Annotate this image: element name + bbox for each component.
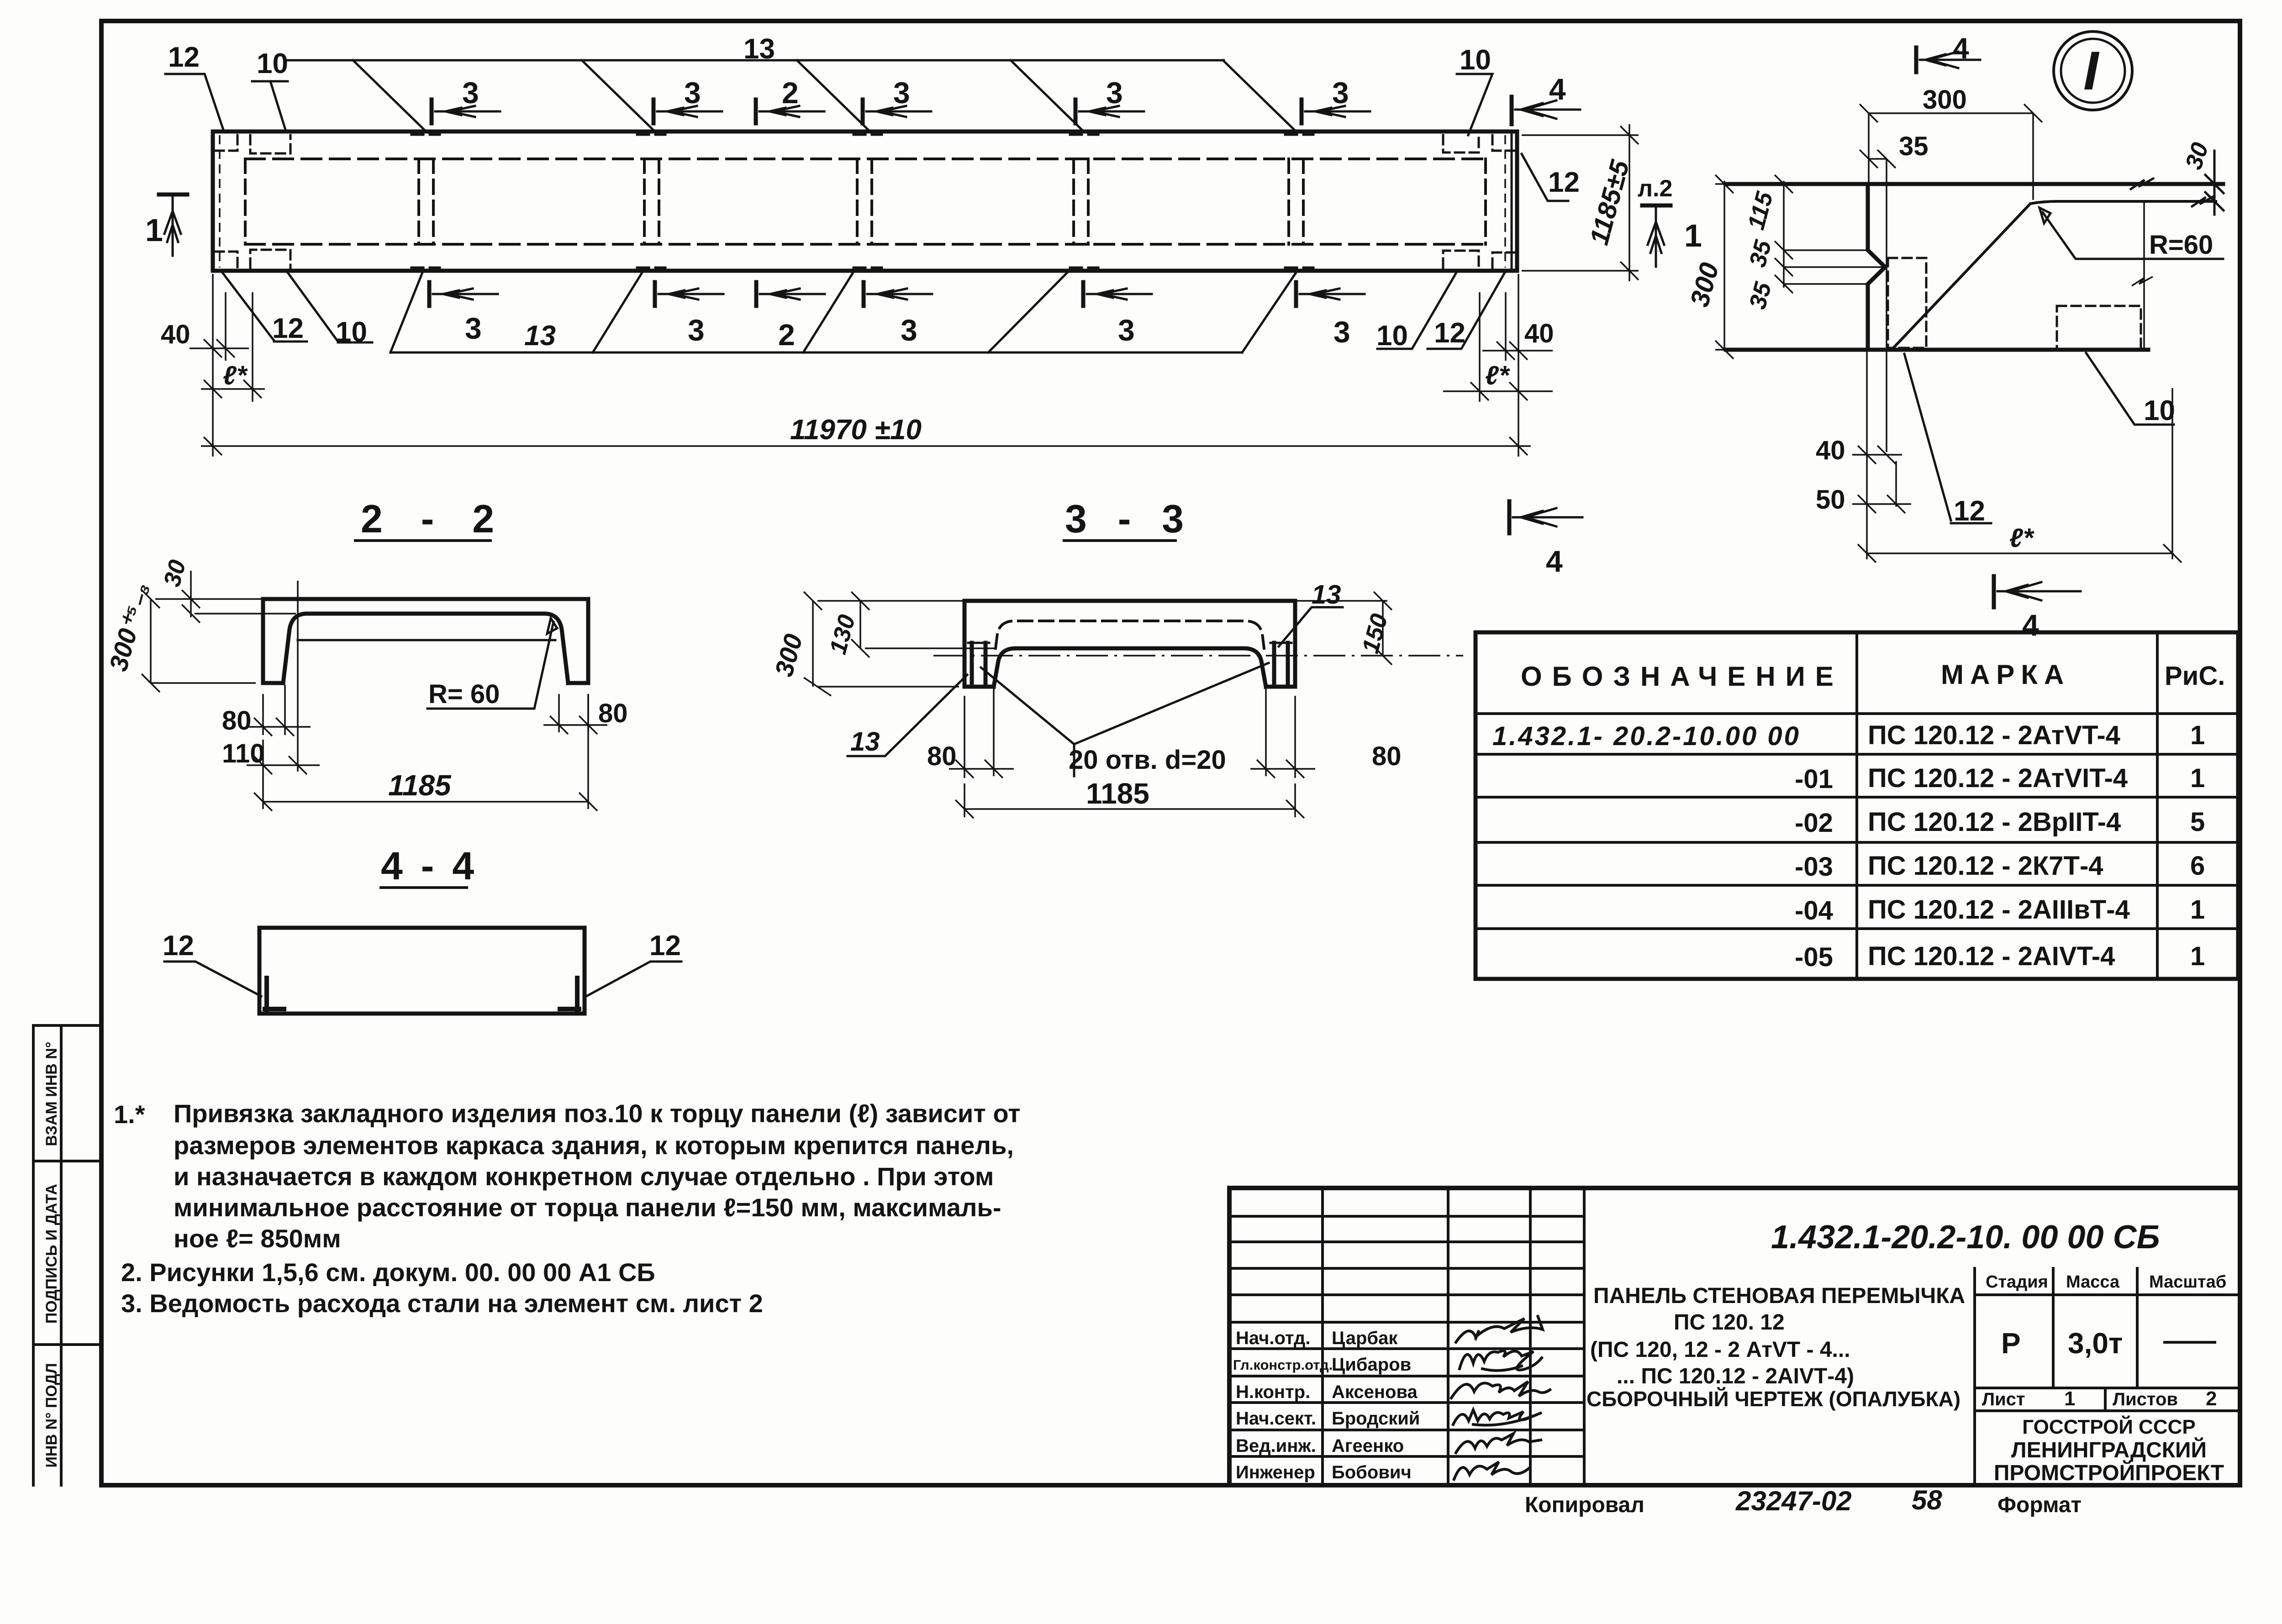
svg-text:Стадия: Стадия: [1986, 1272, 2048, 1292]
svg-text:I: I: [2083, 40, 2100, 101]
svg-text:110: 110: [222, 739, 265, 768]
detail panel bottom edge: [1726, 348, 2148, 352]
svg-text:23247-02: 23247-02: [1735, 1486, 1852, 1516]
web surface line: [298, 639, 555, 641]
svg-text:58: 58: [1912, 1485, 1942, 1515]
channel profile inner: [283, 614, 568, 683]
svg-text:1: 1: [1684, 218, 1702, 253]
section marker 3 top b: [654, 100, 722, 123]
leader label 10 bottom-right: [1377, 273, 1456, 349]
svg-text:2: 2: [2206, 1387, 2217, 1410]
detail end face with keyway: [1868, 184, 1885, 350]
svg-text:3: 3: [1332, 76, 1349, 110]
svg-text:Аксенова: Аксенова: [1332, 1382, 1418, 1402]
dim 300+5-3 left: [142, 590, 263, 692]
embed plate 12 top-left (hidden): [215, 135, 237, 151]
svg-text:2 - 2: 2 - 2: [361, 497, 508, 541]
beam outline: [259, 928, 585, 1014]
embed plate 10 top-right (hidden): [1443, 135, 1479, 152]
dim 300 top of detail: [1860, 104, 2042, 200]
dimension 11970±10: [201, 437, 1531, 455]
dim 1185: [254, 694, 597, 811]
svg-text:3: 3: [1333, 315, 1350, 349]
svg-text:1.*: 1.*: [114, 1100, 145, 1129]
embed plate 10 bottom-right (hidden): [1443, 251, 1479, 268]
svg-text:Р: Р: [2001, 1327, 2021, 1360]
dim 35 top of detail: [1860, 150, 1896, 452]
leader diagonals 13 top: [353, 60, 1296, 131]
embed stubs at dividers bottom edge: [411, 267, 1313, 269]
svg-text:10: 10: [1376, 320, 1408, 352]
section marker 3 bottom b: [655, 282, 723, 306]
svg-text:Цибаров: Цибаров: [1332, 1355, 1411, 1375]
svg-text:Нач.отд.: Нач.отд.: [1236, 1328, 1310, 1348]
svg-text:... ПС 120.12 - 2АIVТ-4): ... ПС 120.12 - 2АIVТ-4): [1617, 1364, 1854, 1388]
dim 80 left s33: [949, 688, 1014, 778]
svg-text:Гл.констр.отд.: Гл.констр.отд.: [1233, 1357, 1333, 1373]
section marker 3 top e: [1302, 100, 1370, 123]
left grid verticals: [1323, 1188, 1584, 1485]
section marker 3 bottom e: [1296, 282, 1365, 306]
dim 300 left: [804, 592, 964, 696]
marks table: [1476, 632, 2238, 979]
signature Brodskiy: [1453, 1410, 1542, 1425]
leader label 12 bottom-left: [222, 273, 307, 342]
svg-text:35: 35: [1899, 131, 1929, 161]
svg-text:ВЗАМ ИНВ N°: ВЗАМ ИНВ N°: [43, 1042, 60, 1146]
svg-text:4: 4: [2022, 608, 2039, 642]
svg-text:Вед.инж.: Вед.инж.: [1236, 1436, 1316, 1456]
title block outer: [1229, 1188, 2240, 1485]
flash break marks on lines right: [2131, 151, 2224, 215]
channel profile inner solid: [994, 648, 1266, 687]
dim 1185 s33: [955, 783, 1304, 818]
svg-text:ОБОЗНАЧЕНИЕ: ОБОЗНАЧЕНИЕ: [1521, 661, 1844, 692]
svg-text:1: 1: [2190, 763, 2205, 793]
signature Ageenko: [1456, 1434, 1541, 1453]
dim 80 right s33: [1250, 688, 1315, 778]
section marker 1 right: [1642, 204, 1671, 208]
hole in right leg: [1274, 643, 1288, 684]
svg-text:СБОРОЧНЫЙ ЧЕРТЕЖ (ОПАЛУБКА): СБОРОЧНЫЙ ЧЕРТЕЖ (ОПАЛУБКА): [1586, 1387, 1961, 1411]
svg-text:3: 3: [688, 313, 705, 347]
svg-text:ПС 120.12 - 2АтVIT-4: ПС 120.12 - 2АтVIT-4: [1868, 763, 2128, 793]
hidden end face line right (dashed): [1504, 135, 1506, 268]
section marker 4 detail bottom: [1994, 576, 2081, 607]
svg-text:10: 10: [257, 48, 288, 79]
embed stubs at dividers top edge: [411, 134, 1313, 136]
svg-text:3. Ведомость расхода стали: 3. Ведомость расхода стали на элемент см…: [121, 1289, 763, 1318]
embed plate 10 bottom-left (hidden): [250, 250, 290, 268]
detail panel top edge: [1726, 182, 2223, 186]
title block: [1229, 1188, 2240, 1485]
ext line through profile: [297, 581, 299, 772]
embed plate 12 left end view: [265, 978, 284, 1011]
svg-text:-03: -03: [1795, 852, 1833, 882]
svg-text:1: 1: [2190, 720, 2205, 750]
dim 80 right: [543, 694, 607, 734]
dim 50 below detail: [1852, 495, 1911, 513]
embed plate 12 in detail (hidden): [1888, 258, 1926, 348]
svg-text:ПОДПИСЬ И ДАТА: ПОДПИСЬ И ДАТА: [43, 1184, 60, 1324]
svg-text:МАРКА: МАРКА: [1941, 659, 2070, 690]
svg-text:13: 13: [524, 320, 556, 352]
svg-text:ℓ*: ℓ*: [1485, 361, 1510, 390]
svg-text:ℓ*: ℓ*: [2009, 523, 2034, 553]
svg-text:R=60: R=60: [2149, 230, 2213, 260]
svg-text:ПС 120.12 - 2АIVT-4: ПС 120.12 - 2АIVT-4: [1868, 941, 2115, 971]
svg-text:5: 5: [2190, 807, 2205, 837]
svg-text:13: 13: [1312, 580, 1341, 610]
svg-text:1: 1: [145, 212, 163, 248]
svg-text:1: 1: [2190, 941, 2205, 971]
svg-text:10: 10: [336, 316, 367, 348]
section marker 4 top-right: [1512, 97, 1580, 124]
section marker 3 top a: [432, 100, 500, 123]
svg-text:40: 40: [161, 320, 190, 349]
leader diagonals 13 bottom: [390, 272, 1296, 352]
svg-text:4: 4: [1953, 32, 1969, 65]
svg-text:ПРОМСТРОЙПРОЕКТ: ПРОМСТРОЙПРОЕКТ: [1994, 1460, 2224, 1485]
svg-text:12: 12: [272, 313, 304, 344]
leader label 12 bottom-right: [1428, 273, 1505, 349]
main panel plan: [145, 33, 1702, 578]
section 4-4: [163, 844, 681, 1014]
svg-text:Привязка закладного изделия: Привязка закладного изделия поз.10 к тор…: [174, 1099, 1021, 1128]
svg-text:80: 80: [1372, 741, 1402, 771]
dimension 1185±5 right: [1522, 124, 1639, 281]
bottom caption row: [1525, 1485, 2082, 1517]
svg-text:12: 12: [1954, 495, 1985, 527]
center axis line: [933, 655, 1463, 657]
svg-text:и назначается в каждом конкр: и назначается в каждом конкретном случае…: [174, 1162, 994, 1191]
hidden end face line left (dashed): [219, 135, 221, 268]
svg-text:3: 3: [462, 76, 479, 110]
svg-text:Формат: Формат: [1997, 1493, 2082, 1517]
svg-text:ℓ*: ℓ*: [223, 361, 248, 390]
svg-text:3: 3: [465, 311, 482, 345]
svg-text:РиС.: РиС.: [2165, 661, 2225, 691]
dim 300 left of detail: [1715, 175, 1734, 359]
ext lines below detail: [1867, 350, 1896, 559]
signature Bobovich: [1454, 1462, 1529, 1479]
svg-text:Агеенко: Агеенко: [1332, 1436, 1404, 1456]
svg-text:ПС 120.12 - 2ВрIIT-4: ПС 120.12 - 2ВрIIT-4: [1868, 807, 2121, 837]
svg-text:Бобович: Бобович: [1332, 1462, 1412, 1482]
value dash: [2165, 1341, 2215, 1344]
section marker 3 top c: [863, 100, 931, 123]
svg-text:Масштаб: Масштаб: [2149, 1272, 2226, 1292]
svg-text:3: 3: [1106, 76, 1123, 110]
stamp column boxes: [33, 1025, 101, 1485]
svg-text:12: 12: [1434, 317, 1465, 349]
notes: [114, 1099, 1021, 1318]
signature Tsarbak: [1456, 1316, 1543, 1342]
svg-text:11970 ±10: 11970 ±10: [790, 414, 922, 446]
svg-text:10: 10: [2144, 395, 2175, 426]
svg-text:2. Рисунки 1,5,6 см. докум: 2. Рисунки 1,5,6 см. докум. 00. 00 00 А1…: [121, 1258, 655, 1287]
svg-text:ИНВ N° ПОДЛ: ИНВ N° ПОДЛ: [43, 1363, 60, 1467]
svg-text:2: 2: [782, 76, 799, 110]
svg-text:3: 3: [1118, 313, 1135, 347]
svg-text:10: 10: [1460, 44, 1491, 76]
embed plate 12 bottom-left (hidden): [215, 252, 237, 268]
svg-text:3: 3: [684, 76, 701, 110]
dim l* below detail: [1858, 388, 2182, 562]
svg-text:3 - 3: 3 - 3: [1065, 497, 1194, 541]
section markers 3 bottom a: [429, 282, 498, 306]
svg-text:80: 80: [927, 741, 957, 771]
dim 150 right: [1297, 592, 1392, 665]
hidden top recess line: [996, 621, 1264, 648]
channel profile outer: [263, 599, 588, 683]
svg-text:1: 1: [2190, 895, 2205, 925]
svg-text:Лист: Лист: [1982, 1389, 2025, 1409]
svg-text:6: 6: [2190, 851, 2205, 881]
svg-text:ное ℓ= 850мм: ное ℓ= 850мм: [174, 1224, 341, 1253]
svg-text:Копировал: Копировал: [1525, 1493, 1644, 1517]
svg-text:3: 3: [893, 76, 910, 110]
signature Tsibarov: [1460, 1351, 1542, 1371]
svg-text:ГОССТРОЙ СССР: ГОССТРОЙ СССР: [2022, 1415, 2195, 1438]
dim l* left: [201, 292, 265, 402]
svg-text:Листов: Листов: [2113, 1389, 2178, 1409]
dim 110 left: [247, 756, 320, 774]
hole in left leg: [972, 643, 986, 684]
svg-text:12: 12: [163, 930, 194, 962]
dim 40 below detail: [1852, 446, 1902, 464]
svg-text:50: 50: [1816, 485, 1845, 515]
section marker 4 bottom-right: [1509, 501, 1582, 533]
leader R=60 detail: [2040, 208, 2223, 259]
svg-text:(ПС 120, 12 - 2 АтVТ - 4...: (ПС 120, 12 - 2 АтVТ - 4...: [1590, 1338, 1850, 1362]
section marker 2 top: [756, 100, 824, 123]
dim 30 left top: [182, 571, 296, 623]
embed plate 12 right end view: [560, 978, 579, 1011]
detail circle mark I: [2054, 32, 2132, 110]
dim 40 left: [190, 274, 249, 457]
section marker 3 bottom c: [864, 282, 932, 306]
keyway extension lines: [1784, 250, 1884, 284]
svg-text:12: 12: [168, 42, 200, 73]
inner recess top hidden line: [245, 158, 1486, 160]
svg-text:ПАНЕЛЬ СТЕНОВАЯ ПЕРЕМЫЧКА: ПАНЕЛЬ СТЕНОВАЯ ПЕРЕМЫЧКА: [1593, 1284, 1965, 1308]
svg-text:Н.контр.: Н.контр.: [1236, 1382, 1310, 1402]
section marker 3 top d: [1075, 100, 1144, 123]
svg-text:3: 3: [901, 313, 917, 347]
svg-text:12: 12: [649, 930, 681, 962]
embed plate 10 in detail (hidden): [2057, 306, 2141, 349]
svg-text:3,0т: 3,0т: [2068, 1327, 2123, 1360]
svg-text:80: 80: [598, 699, 628, 728]
svg-text:1: 1: [2064, 1387, 2075, 1410]
svg-text:минимальное расстояние от т: минимальное расстояние от торца панели ℓ…: [174, 1193, 1001, 1222]
svg-text:1185: 1185: [388, 769, 452, 802]
svg-text:-02: -02: [1795, 808, 1833, 838]
svg-text:ПС 120.12 - 2К7Т-4: ПС 120.12 - 2К7Т-4: [1868, 851, 2103, 881]
svg-text:40: 40: [1816, 436, 1845, 465]
leader label 12 detail: [1904, 354, 1991, 523]
svg-text:40: 40: [1524, 319, 1554, 348]
svg-text:ПС 120.12 - 2АIIIвТ-4: ПС 120.12 - 2АIIIвТ-4: [1868, 895, 2130, 925]
dim 80 left: [247, 685, 311, 736]
section 3-3: [769, 497, 1463, 818]
table grid: [1476, 632, 2238, 979]
svg-text:4 - 4: 4 - 4: [381, 844, 478, 888]
inner recess bottom hidden line: [245, 243, 1486, 246]
section marker 2 bottom: [756, 282, 825, 306]
leader label 10 detail: [2086, 353, 2174, 425]
left margin stamp column: [33, 1025, 101, 1485]
section marker 3 bottom d: [1083, 282, 1152, 306]
embed plate 12 top-right (hidden): [1492, 135, 1514, 151]
svg-text:л.2: л.2: [1638, 175, 1672, 202]
svg-text:ПС 120.12 - 2АтVT-4: ПС 120.12 - 2АтVT-4: [1868, 720, 2120, 750]
svg-text:Нач.сект.: Нач.сект.: [1236, 1409, 1316, 1429]
svg-text:4: 4: [1549, 72, 1566, 106]
embed plate 10 top-left (hidden): [250, 135, 290, 153]
dim l* right: [1443, 292, 1553, 402]
svg-text:-05: -05: [1795, 942, 1833, 972]
svg-text:80: 80: [222, 706, 252, 736]
svg-text:R= 60: R= 60: [428, 679, 500, 709]
channel profile outer: [964, 601, 1295, 687]
svg-text:-04: -04: [1795, 896, 1833, 925]
svg-text:ЛЕНИНГРАДСКИЙ: ЛЕНИНГРАДСКИЙ: [2011, 1437, 2207, 1462]
dim 40 right: [1482, 274, 1553, 457]
inner channel slope line: [1893, 201, 2216, 348]
section marker 4 detail top: [1916, 47, 1980, 72]
recess cell dividers (hidden): [245, 159, 1486, 244]
svg-text:1.432.1-20.2-10. 00 00 СБ: 1.432.1-20.2-10. 00 00 СБ: [1771, 1219, 2160, 1256]
detail I (uzel I): [1685, 32, 2224, 642]
leader label 10 bottom-left: [288, 273, 372, 342]
svg-text:4: 4: [1546, 544, 1563, 578]
signature Aksenova: [1451, 1382, 1550, 1398]
section marker 1 left: [159, 193, 187, 197]
svg-text:13: 13: [850, 727, 880, 757]
dim 35 35 115 chain: [1775, 175, 1793, 293]
svg-text:1185: 1185: [1086, 777, 1149, 810]
svg-text:Бродский: Бродский: [1332, 1409, 1420, 1429]
svg-text:12: 12: [1548, 167, 1580, 198]
left grid horizontals: [1229, 1216, 1584, 1456]
svg-text:Царбак: Царбак: [1332, 1328, 1398, 1348]
svg-text:20 отв. d=20: 20 отв. d=20: [1069, 745, 1226, 775]
svg-text:2: 2: [778, 318, 795, 352]
svg-text:Масса: Масса: [2066, 1272, 2120, 1292]
right columns grid: [1975, 1268, 2240, 1485]
svg-text:1.432.1- 20.2-10.00 00: 1.432.1- 20.2-10.00 00: [1492, 721, 1801, 751]
panel outline: [213, 131, 1517, 271]
leader R=60 s22: [427, 618, 557, 709]
section 2-2: [104, 497, 628, 811]
svg-text:размеров элементов каркаса: размеров элементов каркаса здания, к кот…: [174, 1131, 1014, 1160]
panel right end inner edge line: [1511, 133, 1513, 269]
svg-text:ПС 120. 12: ПС 120. 12: [1674, 1310, 1785, 1335]
svg-text:Инженер: Инженер: [1236, 1462, 1315, 1482]
svg-text:-01: -01: [1795, 764, 1833, 794]
embed plate 12 bottom-right (hidden): [1492, 252, 1514, 268]
dim 130 left: [851, 592, 996, 657]
vertical dim line through plate 10: [2132, 201, 2153, 350]
svg-text:300: 300: [1923, 85, 1967, 115]
